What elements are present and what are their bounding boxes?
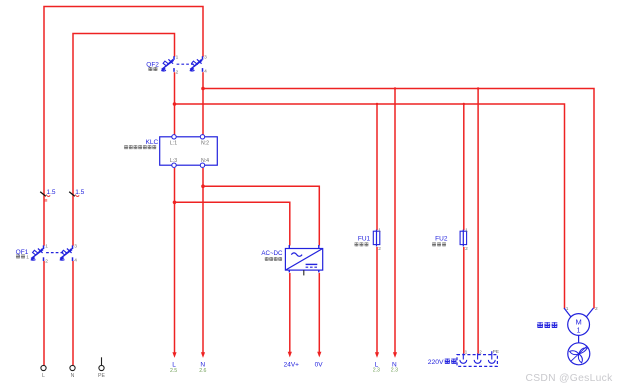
svg-text:2: 2 — [378, 246, 381, 252]
svg-text:2.5: 2.5 — [170, 368, 177, 374]
svg-text:1: 1 — [566, 306, 569, 312]
svg-text:1: 1 — [26, 254, 29, 260]
svg-text:2: 2 — [479, 350, 482, 356]
svg-text:1: 1 — [176, 54, 179, 60]
svg-text:N:4: N:4 — [201, 158, 209, 164]
svg-text:3: 3 — [74, 244, 77, 250]
svg-text:2.6: 2.6 — [199, 368, 206, 374]
svg-text:M: M — [575, 317, 581, 326]
svg-text:KLC: KLC — [145, 139, 158, 146]
svg-text:AC~DC: AC~DC — [261, 250, 283, 257]
svg-text:N:2: N:2 — [201, 141, 209, 147]
svg-text:1.5: 1.5 — [75, 189, 84, 196]
svg-text:PE: PE — [98, 373, 105, 379]
svg-text:1: 1 — [465, 227, 468, 233]
svg-text:PE: PE — [493, 349, 499, 355]
svg-text:1: 1 — [45, 244, 48, 250]
svg-text:L:1: L:1 — [170, 141, 177, 147]
svg-text:1: 1 — [378, 227, 381, 233]
svg-text:FU1: FU1 — [358, 236, 371, 243]
svg-text:1: 1 — [465, 350, 468, 356]
svg-text:2: 2 — [45, 259, 48, 265]
svg-text:0V: 0V — [315, 361, 324, 368]
svg-text:L: L — [42, 373, 45, 379]
svg-text:4: 4 — [204, 69, 207, 75]
svg-text:QF2: QF2 — [146, 61, 159, 68]
svg-text:2: 2 — [595, 306, 598, 312]
svg-text:1.5: 1.5 — [46, 189, 55, 196]
svg-text:2: 2 — [465, 246, 468, 252]
svg-text:N: N — [71, 373, 75, 379]
svg-text:CSDN @GesLuck: CSDN @GesLuck — [526, 373, 614, 384]
svg-text:L:3: L:3 — [170, 158, 177, 164]
svg-text:2.3: 2.3 — [373, 368, 380, 374]
svg-text:3: 3 — [204, 54, 207, 60]
svg-text:1: 1 — [577, 327, 581, 334]
svg-text:2.3: 2.3 — [391, 368, 398, 374]
svg-text:2: 2 — [176, 70, 179, 76]
svg-text:24V+: 24V+ — [284, 361, 300, 368]
svg-text:220V: 220V — [428, 359, 444, 366]
svg-text:FU2: FU2 — [435, 236, 448, 243]
svg-text:4: 4 — [74, 258, 77, 264]
